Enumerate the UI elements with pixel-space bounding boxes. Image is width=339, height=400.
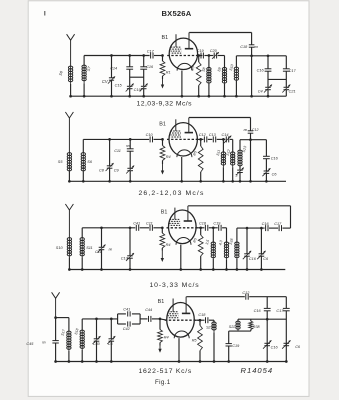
wire link [130, 76, 144, 78]
cathode lead [181, 71, 183, 97]
svg-text:C11: C11 [95, 250, 102, 254]
resistor R5 [198, 56, 200, 63]
resistor R1 grid [162, 56, 164, 62]
svg-text:C14: C14 [110, 67, 117, 71]
rail nodes 2 [68, 180, 71, 183]
svg-text:C16: C16 [146, 65, 154, 69]
wire link right [268, 78, 286, 80]
svg-text:C19: C19 [213, 221, 221, 225]
svg-text:C17: C17 [147, 50, 155, 54]
rail nodes 3 [68, 268, 71, 271]
capacitor C12 series [203, 136, 205, 142]
svg-text:nn: nn [109, 247, 113, 251]
trimmer C6 s3 [260, 228, 262, 254]
resistor R4 s3 [161, 228, 163, 233]
wire ant to S17 [56, 317, 69, 319]
svg-text:B1: B1 [161, 210, 168, 216]
svg-text:S21: S21 [206, 326, 213, 330]
trimmer C16b s4 [264, 342, 270, 344]
wire box to grid [140, 318, 147, 320]
capacitor C10 series [149, 136, 151, 142]
svg-text:C16: C16 [271, 157, 279, 161]
coil S11 [222, 139, 224, 151]
capacitor C17 series s3 [278, 225, 280, 231]
node grid junction 4 [159, 318, 162, 321]
svg-text:R4: R4 [166, 243, 171, 247]
capacitor C16a [143, 56, 145, 67]
trimmer C8 [109, 139, 111, 165]
svg-text:C18: C18 [240, 45, 248, 49]
resistor R38 [250, 319, 252, 321]
wire grid bus 3 [82, 227, 135, 229]
coil S7 [83, 56, 85, 66]
capacitor C16 s2 [265, 140, 267, 157]
coil S6b [82, 139, 84, 152]
capacitor C45 [55, 318, 57, 341]
svg-text:C14: C14 [222, 133, 229, 137]
resistor R4 s4 [159, 319, 161, 330]
capacitor C17b [285, 56, 287, 69]
wire plate bus 2 [196, 138, 203, 140]
trimmer C6 s2 [264, 170, 270, 172]
coil S14 [212, 228, 214, 242]
wire secondary bus [236, 55, 286, 57]
coil S8 [208, 56, 210, 68]
capacitor C18 series s4 [205, 317, 207, 323]
tube B1 s4 [167, 303, 195, 338]
svg-text:26,2-12,03 Mc/s: 26,2-12,03 Mc/s [139, 190, 205, 197]
svg-text:C16: C16 [257, 69, 265, 73]
svg-text:C17: C17 [289, 69, 297, 73]
svg-text:C12: C12 [199, 133, 207, 137]
coil S22 [237, 319, 239, 321]
svg-text:B1: B1 [158, 299, 165, 305]
svg-text:S10: S10 [56, 246, 64, 250]
capacitor C12 series s4 [245, 294, 247, 300]
resistor R5 s3 [200, 228, 202, 235]
svg-text:S22: S22 [229, 325, 236, 329]
trimmer C30 [96, 319, 98, 339]
trimmer C9 [127, 167, 133, 169]
svg-text:C13: C13 [121, 256, 129, 260]
coil S18 [81, 319, 83, 330]
capacitor C15 series anode [250, 118, 252, 131]
rail nodes 4 [54, 360, 57, 363]
svg-text:C41: C41 [133, 222, 140, 226]
capacitor C44 series [148, 316, 150, 322]
wire secondary bus 2 [240, 139, 266, 141]
trimmer C19a [141, 85, 147, 87]
svg-text:R4: R4 [166, 155, 171, 159]
tube B1 s3 [169, 210, 197, 244]
capacitor CV [111, 56, 113, 78]
svg-text:C12: C12 [242, 291, 250, 295]
wire plate bus 4 [194, 319, 204, 321]
capacitor C11 [129, 139, 131, 148]
svg-text:12,03-9,32 Mc/s: 12,03-9,32 Mc/s [137, 101, 193, 108]
bandfilter box C41 C42 [117, 314, 119, 324]
trimmer C10 s3 [246, 228, 248, 254]
node J3 [266, 318, 269, 321]
svg-text:C21: C21 [289, 90, 296, 94]
node grid junction 2 [161, 138, 164, 141]
capacitor C41 series [135, 225, 137, 231]
AVC arrow 3 [161, 251, 163, 260]
node J1 s3 [246, 227, 249, 230]
ground rail 3 [69, 269, 285, 271]
svg-text:C17: C17 [274, 222, 282, 226]
svg-text:C16: C16 [271, 345, 279, 349]
svg-text:nn: nn [42, 341, 46, 345]
capacitor C17 s4 [285, 297, 287, 309]
node J1 s2 [249, 138, 252, 141]
svg-text:C16: C16 [262, 222, 270, 226]
trimmer C5 [110, 319, 112, 339]
coil S13 [239, 140, 241, 150]
wire link bottom [229, 330, 251, 332]
node ant junction [54, 316, 57, 319]
capacitor C17 series [150, 53, 152, 59]
svg-text:nn: nn [254, 45, 258, 49]
svg-text:C11: C11 [146, 222, 153, 226]
anode wire 4 [186, 296, 245, 298]
resistor R5 s2 [200, 139, 202, 146]
AVC arrow 4 [159, 346, 161, 350]
anode wire 3 [188, 205, 290, 207]
svg-text:C19: C19 [134, 88, 142, 92]
capacitor C19 s4 [228, 331, 230, 344]
coil S6 [70, 66, 72, 84]
trimmer C15 [127, 85, 133, 87]
capacitor C11b series [149, 225, 151, 231]
antenna W2 [65, 112, 69, 118]
trimmer C11 s3 [101, 228, 103, 248]
coil S12 [232, 139, 234, 151]
node J2 s3 [260, 227, 263, 230]
svg-text:C13: C13 [209, 133, 217, 137]
svg-text:Fig.1: Fig.1 [155, 379, 171, 386]
wire grid bus 2 [83, 138, 149, 140]
cathode lead 3 [180, 245, 182, 270]
svg-text:R14054: R14054 [241, 366, 274, 375]
resistor R5 s4 [199, 320, 201, 325]
trimmer C4 [265, 86, 271, 88]
coil S21 [213, 320, 215, 322]
coil S10b [68, 238, 70, 258]
antenna W4 [52, 292, 56, 298]
wire secondary bus 3 [237, 227, 265, 229]
svg-text:C17: C17 [276, 309, 284, 313]
svg-text:C30: C30 [93, 342, 101, 346]
capacitor C13 series [212, 136, 214, 142]
coil S15 [226, 228, 228, 242]
node J1 [250, 54, 253, 57]
coil S9 [224, 56, 226, 68]
svg-text:10-3,33 Mc/s: 10-3,33 Mc/s [150, 282, 200, 289]
svg-text:R38: R38 [253, 325, 261, 329]
wire plate bus 3 [196, 227, 205, 229]
svg-text:1622-517 Kc/s: 1622-517 Kc/s [139, 368, 193, 375]
tube B1 [169, 38, 197, 69]
wire secondary bus 4 [238, 318, 286, 320]
svg-text:C19: C19 [197, 49, 205, 53]
trimmer S13 pad [237, 169, 243, 171]
svg-text:C12: C12 [252, 128, 259, 132]
trimmer C13 s3 [129, 228, 131, 256]
coil S17 [68, 318, 70, 331]
cathode lead 2 [181, 157, 183, 181]
svg-text:C15: C15 [115, 84, 123, 88]
capacitor C16 series s3 [265, 225, 267, 231]
capacitor C14 [129, 56, 131, 67]
ground rail [71, 95, 287, 97]
svg-text:C4: C4 [258, 90, 263, 94]
AVC arrow 2 [162, 164, 164, 172]
capacitor C20 series [213, 53, 215, 59]
anode wire [189, 32, 251, 34]
coil S5 [68, 153, 70, 172]
cathode lead 4 [178, 338, 180, 361]
svg-text:S11: S11 [86, 246, 92, 250]
svg-text:nn: nn [244, 128, 248, 132]
svg-text:C18: C18 [199, 221, 207, 225]
svg-text:C10: C10 [146, 133, 154, 137]
node J2 [267, 54, 270, 57]
trimmer C6 s4 [284, 342, 290, 344]
coil S16 [236, 228, 238, 242]
antenna W3 [65, 204, 69, 210]
ground rail 2 [69, 180, 286, 182]
capacitor C18 series s3 [204, 225, 206, 231]
AVC arrow [162, 79, 164, 86]
antenna W1 [67, 34, 71, 40]
svg-text:R4: R4 [164, 336, 169, 340]
trimmer C14 series [225, 136, 227, 142]
svg-text:C18: C18 [198, 313, 206, 317]
capacitor C16 [267, 56, 269, 69]
svg-text:C11: C11 [114, 149, 121, 153]
svg-text:C41: C41 [123, 308, 130, 312]
resistor R4 grid [162, 139, 164, 145]
trimmer C21 [284, 86, 290, 88]
svg-text:nn: nn [126, 144, 130, 148]
anode wire 2 [189, 117, 251, 119]
svg-text:B1: B1 [162, 35, 169, 41]
wire plate bus [197, 55, 200, 57]
coil S10 [235, 56, 237, 67]
svg-text:C16: C16 [249, 257, 257, 261]
svg-text:R1: R1 [166, 71, 171, 75]
svg-text:C16: C16 [254, 309, 262, 313]
capacitor C18 series [251, 33, 253, 45]
capacitor C16 s4 [266, 297, 268, 309]
wire band bus [82, 318, 117, 320]
node grid junction [161, 54, 164, 57]
rail nodes [69, 95, 72, 98]
tube B1 s2 [169, 123, 197, 156]
svg-text:C44: C44 [145, 308, 152, 312]
svg-text:C42: C42 [123, 327, 131, 331]
ground rail 4 [56, 361, 287, 363]
wire corner 3 [290, 206, 292, 228]
capacitor C19 series [200, 53, 202, 59]
svg-text:B1: B1 [159, 122, 166, 128]
svg-text:C20: C20 [210, 49, 218, 53]
wire grid bus [84, 55, 150, 57]
svg-text:C45: C45 [26, 342, 34, 346]
coil S11b [81, 228, 83, 238]
capacitor C19 series s3 [218, 225, 220, 231]
node grid junction 3 [161, 226, 164, 229]
svg-text:BX526A: BX526A [162, 9, 192, 18]
svg-text:C19: C19 [232, 344, 240, 348]
